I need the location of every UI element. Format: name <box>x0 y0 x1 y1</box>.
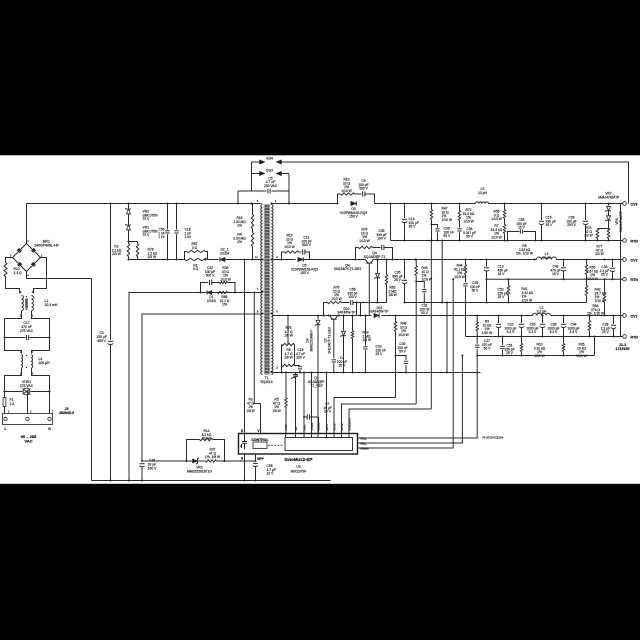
svg-text:50 V: 50 V <box>399 350 407 354</box>
wire choke to C17 box <box>5 311 22 338</box>
svg-text:50 V: 50 V <box>421 311 429 315</box>
svg-text:US1G: US1G <box>207 299 216 303</box>
svg-text:1/10 W: 1/10 W <box>587 277 598 281</box>
wire SG left vertical <box>251 162 253 191</box>
terminal CV3 <box>623 202 627 206</box>
svg-text:U2: U2 <box>296 465 300 469</box>
svg-text:100 V: 100 V <box>348 295 357 299</box>
svg-text:500 V: 500 V <box>206 274 215 278</box>
svg-text:0 Ω: 0 Ω <box>192 246 198 250</box>
svg-text:10 V: 10 V <box>267 472 275 476</box>
svg-text:BPP: BPP <box>257 457 264 461</box>
wire S pin to bottom rail <box>244 454 246 481</box>
wire Q4 source return <box>368 264 370 316</box>
svg-text:RTN: RTN <box>631 335 639 339</box>
svg-text:VAC: VAC <box>24 439 32 444</box>
svg-text:150 V: 150 V <box>300 271 309 275</box>
svg-text:CONTROL: CONTROL <box>251 438 269 442</box>
svg-text:CV1: CV1 <box>631 314 638 318</box>
svg-text:RTN: RTN <box>631 239 639 243</box>
wire secondary ground rail <box>273 372 481 374</box>
svg-text:6.3 V: 6.3 V <box>507 330 515 334</box>
svg-text:1/10 W: 1/10 W <box>359 239 370 243</box>
wire C17 to L4 <box>5 338 22 354</box>
svg-text:1/10 W: 1/10 W <box>220 277 231 281</box>
svg-text:1/10 W: 1/10 W <box>398 333 409 337</box>
svg-text:6.3 V: 6.3 V <box>529 330 537 334</box>
wire VLED sense vertical <box>430 241 432 410</box>
svg-text:1/10 W: 1/10 W <box>522 298 533 302</box>
wire COM1 pin <box>311 373 313 434</box>
svg-text:BAT46W-TP: BAT46W-TP <box>337 311 356 315</box>
svg-text:150 V: 150 V <box>349 215 358 219</box>
svg-text:2/3 W: 2/3 W <box>584 234 593 238</box>
svg-text:1/10 W: 1/10 W <box>454 275 465 279</box>
wire mid column verticals <box>356 303 358 316</box>
IC U2 top pin stubs <box>285 434 287 438</box>
wire bias winding return pin8 <box>142 314 263 461</box>
svg-text:35 V: 35 V <box>546 223 554 227</box>
svg-text:6.3 V: 6.3 V <box>550 330 558 334</box>
wire RTN rail CV1 <box>466 336 623 338</box>
svg-text:35 V: 35 V <box>409 225 417 229</box>
svg-text:25 V: 25 V <box>376 352 384 356</box>
svg-text:25 V: 25 V <box>602 330 610 334</box>
svg-text:COM1: COM1 <box>310 422 314 430</box>
svg-text:L: L <box>5 427 7 431</box>
wire BPP rail <box>142 460 193 462</box>
wire top line to CV3 terminal <box>282 162 629 204</box>
svg-text:1.3 Ω: 1.3 Ω <box>14 271 23 275</box>
svg-text:11: 11 <box>255 255 258 259</box>
svg-text:25 V: 25 V <box>394 278 402 282</box>
svg-text:CV2: CV2 <box>631 258 638 262</box>
svg-text:VCV2: VCV2 <box>340 423 344 431</box>
svg-text:50 V: 50 V <box>444 234 452 238</box>
wire COM2 pin with D4 chain <box>317 373 319 434</box>
svg-text:2 A: 2 A <box>10 402 16 406</box>
wire IBPS pin <box>326 373 328 434</box>
svg-text:1%, 1/8 W: 1%, 1/8 W <box>205 455 221 459</box>
svg-text:SQJA62EP-T1: SQJA62EP-T1 <box>364 255 386 259</box>
wire D pin drain <box>244 260 246 434</box>
svg-text:1 kV: 1 kV <box>185 235 192 239</box>
svg-text:1%, 1/10 W: 1%, 1/10 W <box>516 252 534 256</box>
wire G to connector <box>27 392 29 414</box>
wire CV2 rail dots <box>404 259 406 261</box>
svg-text:1/8 W: 1/8 W <box>246 409 254 413</box>
wire Q1 source to SR pin <box>295 380 297 434</box>
svg-text:275 VAC: 275 VAC <box>20 384 34 388</box>
svg-text:IMX2379F: IMX2379F <box>291 470 307 474</box>
svg-text:50 V: 50 V <box>472 289 480 293</box>
svg-text:SI4154DY-T1-GE3: SI4154DY-T1-GE3 <box>334 267 362 271</box>
svg-text:25 V: 25 V <box>506 351 514 355</box>
svg-text:75 V: 75 V <box>143 233 151 237</box>
svg-text:1/8 W: 1/8 W <box>284 356 293 360</box>
svg-text:500 V: 500 V <box>359 187 368 191</box>
IC U2 inner controller box <box>285 438 353 451</box>
svg-text:50 V: 50 V <box>466 235 474 239</box>
resistor R34 <box>589 316 591 321</box>
svg-text:GND: GND <box>302 424 306 430</box>
spark gap SG3 <box>252 173 260 175</box>
svg-text:T1_GE3: T1_GE3 <box>310 384 322 388</box>
svg-text:InnoMux2-EP: InnoMux2-EP <box>285 457 313 462</box>
wire vertical 441.7 <box>441 241 443 303</box>
svg-text:500 V: 500 V <box>302 243 311 247</box>
svg-text:25 V: 25 V <box>601 273 609 277</box>
wire VLED pin staircase <box>349 409 431 434</box>
wire bridge bottom to B- rail <box>27 272 92 481</box>
svg-text:25 V: 25 V <box>324 410 332 414</box>
svg-text:1%: 1% <box>222 303 227 307</box>
spark gap SG4 <box>252 161 260 163</box>
transformer T1 secondary winding <box>271 205 273 375</box>
svg-text:1 kV: 1 kV <box>158 235 165 239</box>
svg-text:3.2 µH: 3.2 µH <box>537 309 547 313</box>
svg-text:VCV1: VCV1 <box>332 423 336 431</box>
svg-text:2/3 W: 2/3 W <box>148 255 157 259</box>
svg-text:IBPS: IBPS <box>325 424 329 430</box>
svg-text:10.3 mH: 10.3 mH <box>45 303 58 307</box>
wire feedback rail <box>477 355 594 357</box>
wire bias winding 292 rail <box>129 293 263 481</box>
wire VCV1 pin staircase <box>334 398 396 434</box>
svg-text:SI4154DY-T1-GE3: SI4154DY-T1-GE3 <box>328 327 332 354</box>
schematic white band <box>0 155 640 484</box>
svg-text:275 VAC: 275 VAC <box>20 329 34 333</box>
wire L4 to VDR rail <box>5 368 22 391</box>
svg-text:PI-9729-022324: PI-9729-022324 <box>483 436 504 440</box>
svg-text:25 V: 25 V <box>339 364 347 368</box>
wire return to D2_1 <box>208 259 219 261</box>
svg-text:6.3 V: 6.3 V <box>570 330 578 334</box>
IC U2 outer box <box>239 434 358 455</box>
svg-text:J1-1: J1-1 <box>619 343 626 347</box>
wire CV2 return mini rail <box>357 302 387 304</box>
svg-text:1/8 W: 1/8 W <box>272 409 281 413</box>
svg-text:COM2: COM2 <box>316 422 320 430</box>
wire main bus B+ <box>27 203 262 205</box>
svg-text:US1M: US1M <box>220 251 229 255</box>
terminal CV1 <box>623 314 627 318</box>
svg-text:15 V: 15 V <box>518 226 526 230</box>
svg-text:BAT46W-TP: BAT46W-TP <box>370 310 389 314</box>
terminal RTN3 <box>623 335 627 339</box>
svg-text:1715190: 1715190 <box>616 347 630 351</box>
svg-text:1/10 W: 1/10 W <box>341 189 352 193</box>
svg-text:1/10 W: 1/10 W <box>442 218 453 222</box>
svg-text:CV3: CV3 <box>631 202 638 206</box>
wire CV2 mid rail RTN <box>487 278 623 280</box>
wire CV1 secondary bus <box>272 315 324 317</box>
svg-text:200 V: 200 V <box>567 223 576 227</box>
terminal RTN1 <box>623 239 627 243</box>
svg-text:10 µH: 10 µH <box>478 191 487 195</box>
wire BPP to C58 <box>255 454 257 461</box>
svg-text:250 VAC: 250 VAC <box>264 184 278 188</box>
wire N to connector <box>49 392 51 414</box>
svg-text:16 V: 16 V <box>552 272 560 276</box>
svg-text:450 V: 450 V <box>97 339 107 343</box>
wire V pin <box>254 293 260 434</box>
svg-text:75 V: 75 V <box>143 217 151 221</box>
svg-text:1/10 W: 1/10 W <box>284 245 295 249</box>
svg-text:SG3: SG3 <box>266 169 273 173</box>
svg-text:S: S <box>241 456 243 460</box>
svg-text:1/8 W: 1/8 W <box>388 293 397 297</box>
svg-text:25 V: 25 V <box>498 295 506 299</box>
svg-text:FWD: FWD <box>284 424 288 430</box>
svg-text:160 V: 160 V <box>148 466 158 470</box>
svg-text:1/10 W: 1/10 W <box>482 331 493 335</box>
wire RTN rail CV3 <box>390 204 392 241</box>
svg-text:1%: 1% <box>237 240 242 244</box>
transformer T1 core <box>264 205 271 375</box>
svg-text:MMSZ5248B-F: MMSZ5248B-F <box>310 330 314 352</box>
svg-text:240GP406L-HF: 240GP406L-HF <box>34 244 59 248</box>
wire FWD pin with R5 <box>285 373 287 398</box>
IC U2 internal MOSFET <box>240 434 247 450</box>
svg-text:50 V: 50 V <box>484 347 492 351</box>
wire bridge right to choke <box>34 258 47 294</box>
wire bus to bridge <box>26 204 28 244</box>
svg-text:1/10 W: 1/10 W <box>331 297 342 301</box>
svg-text:VLED/20V: VLED/20V <box>347 418 351 431</box>
svg-text:MMSZ5261BT1G: MMSZ5261BT1G <box>187 469 212 473</box>
svg-text:1/10 W: 1/10 W <box>491 235 502 239</box>
svg-text:2/3 W: 2/3 W <box>112 252 121 256</box>
svg-text:SR: SR <box>294 427 298 431</box>
svg-text:0 Ω: 0 Ω <box>193 267 199 271</box>
svg-text:282845-3: 282845-3 <box>59 411 74 415</box>
svg-text:1/10 W: 1/10 W <box>463 219 474 223</box>
svg-text:200 V: 200 V <box>296 356 305 360</box>
wire SG right vertical <box>288 174 290 204</box>
terminal CV2 <box>623 258 627 262</box>
wire C6 to bus <box>237 191 239 204</box>
svg-text:100 V: 100 V <box>377 237 386 241</box>
svg-text:16 V: 16 V <box>498 272 506 276</box>
wire primary return <box>129 259 185 261</box>
svg-text:1/8 W: 1/8 W <box>284 334 293 338</box>
transformer T1 primary winding <box>261 205 263 375</box>
zener D12 <box>343 316 345 331</box>
svg-text:2/3 W: 2/3 W <box>595 252 604 256</box>
svg-text:1/8 W: 1/8 W <box>363 338 372 342</box>
svg-text:SG4: SG4 <box>266 157 273 161</box>
svg-text:EQ2014: EQ2014 <box>260 380 272 384</box>
svg-text:1%: 1% <box>237 224 242 228</box>
terminal RTN2 <box>623 277 627 281</box>
svg-text:RTN: RTN <box>631 278 639 282</box>
connector body line <box>620 204 622 337</box>
wire vertical 446.5 <box>446 303 448 373</box>
wire GND pin <box>303 373 305 434</box>
svg-text:200 µH: 200 µH <box>39 361 51 365</box>
svg-text:SMAJ4743ATP: SMAJ4743ATP <box>598 195 620 199</box>
svg-text:1/10 W: 1/10 W <box>491 217 502 221</box>
wire VCV2 pin staircase <box>342 404 417 434</box>
wire bottom primary rail <box>92 480 331 482</box>
